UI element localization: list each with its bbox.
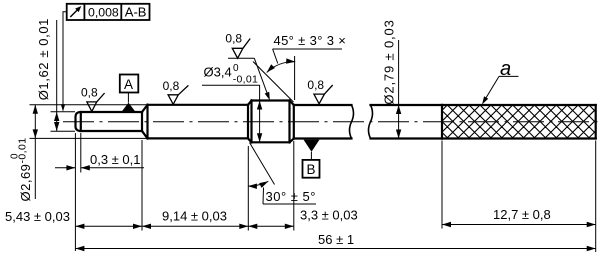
extension line x=293.8 [293,141,295,231]
svg-text:45° ± 3° 3 ×: 45° ± 3° 3 × [274,33,347,48]
svg-text:Ø3,4: Ø3,4 [204,65,232,80]
feature control frame runout 0,008 A-B [61,4,150,112]
svg-text:0,8: 0,8 [163,79,180,93]
extension line x=442 [441,141,443,229]
svg-text:0,8: 0,8 [307,78,324,92]
svg-text:0,8: 0,8 [225,31,242,45]
tip top edge extension left [51,111,76,113]
main bottom dimension line 5,43 / 9,14 / 3,3 [5,208,358,230]
svg-text:-0,01: -0,01 [233,73,258,85]
thin extension lines [30,105,596,252]
svg-text:A: A [124,77,133,92]
svg-text:A-B: A-B [125,4,147,19]
taper tip to section2 [142,105,148,112]
svg-text:0,3 ± 0,1: 0,3 ± 0,1 [90,152,141,167]
extension line x=80.8 [80,133,82,173]
tip pin Ø1,62 outline [76,112,143,131]
tip bottom edge extension left [51,130,76,132]
angle arc [248,181,268,186]
dimension 56 ± 1 [75,232,595,251]
datum B [303,140,320,178]
wire: part outline [76,101,596,143]
extension line x=75.4 [74,133,76,251]
collar outline [250,101,252,143]
runout symbol arrow [70,8,79,17]
svg-text:Ø2,79 ± 0,03: Ø2,79 ± 0,03 [382,19,397,104]
svg-text:3,3 ± 0,03: 3,3 ± 0,03 [300,208,358,223]
label leader [273,49,278,64]
surface roughness 0,8 on tip [87,93,105,111]
section2 top edge extension left [30,104,148,106]
taper extension line [250,143,275,185]
dimension 45° ± 3° 3x chamfer [253,33,346,102]
dimension 30° ± 5° taper [248,143,316,205]
extension line x=595.7 [595,141,597,253]
surface roughness 0,8 on collar with leader [232,39,250,59]
dimension Ø3,4 0/-0,01 [202,63,262,142]
break line left [350,105,354,139]
svg-text:56 ± 1: 56 ± 1 [318,232,354,247]
svg-text:0,8: 0,8 [81,86,98,100]
svg-text:0: 0 [233,63,239,74]
svg-text:12,7 ± 0,8: 12,7 ± 0,8 [493,207,551,222]
section3 Ø2,79 left part [293,105,295,139]
frame leader to surface [63,12,67,111]
vertical extension above corner [294,56,296,100]
section3 Ø2,79 right part [371,104,443,106]
datum A [120,75,139,112]
surface roughness 0,8 on section3 [314,85,333,104]
dimension 12,7 ± 0,8 [442,207,596,227]
collar Ø3,4 chamfered left [248,101,252,105]
svg-text:9,14 ± 0,03: 9,14 ± 0,03 [162,208,227,223]
svg-text:0,008: 0,008 [88,5,119,19]
section2 Ø2,69 outline [146,105,148,139]
centerline [63,121,602,123]
tip right face [141,112,143,131]
dimension Ø2,79 ± 0,03 [382,19,402,138]
collar chamfered right [290,101,294,106]
extension line x=248.3 [247,146,249,231]
knurl label a [480,58,519,106]
extension line x=142 [141,140,143,231]
svg-text:B: B [307,162,316,177]
dimension Ø2,69 0/-0,01 [10,105,39,202]
break line right [369,105,373,139]
svg-text:Ø1,62 ± 0,01: Ø1,62 ± 0,01 [36,18,51,100]
45 deg chamfer extension line [253,62,294,103]
tip tangent edge [80,112,82,131]
surface roughness 0,8 on section2 [168,85,188,104]
svg-text:30° ± 5°: 30° ± 5° [266,189,316,204]
section2 bottom edge extension left [30,137,148,139]
svg-text:Ø2,69: Ø2,69 [18,164,33,202]
svg-text:5,43 ± 0,03: 5,43 ± 0,03 [5,209,70,224]
label leader [262,188,265,205]
dimension Ø1,62 ± 0,01 [36,18,59,131]
knurl section outline a [441,105,443,139]
angle arc [267,62,296,73]
svg-text:-0,01: -0,01 [17,138,29,164]
knurl crosshatch pattern [442,105,596,139]
dimension 0,3 ± 0,1 [55,152,144,171]
